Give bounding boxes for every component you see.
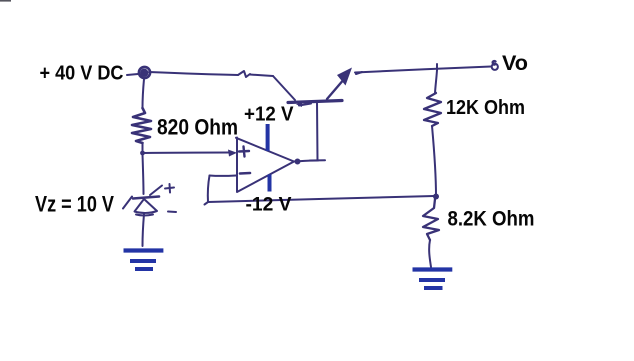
svg-text:+ 40 V DC: + 40 V DC: [40, 63, 124, 85]
svg-text:820 Ohm: 820 Ohm: [157, 115, 238, 140]
svg-text:-12 V: -12 V: [246, 195, 292, 216]
svg-text:+12 V: +12 V: [244, 104, 294, 126]
svg-text:12K Ohm: 12K Ohm: [446, 97, 525, 119]
svg-text:Vo: Vo: [502, 52, 528, 75]
svg-text:8.2K Ohm: 8.2K Ohm: [448, 208, 535, 231]
svg-text:Vz = 10 V: Vz = 10 V: [35, 192, 114, 217]
